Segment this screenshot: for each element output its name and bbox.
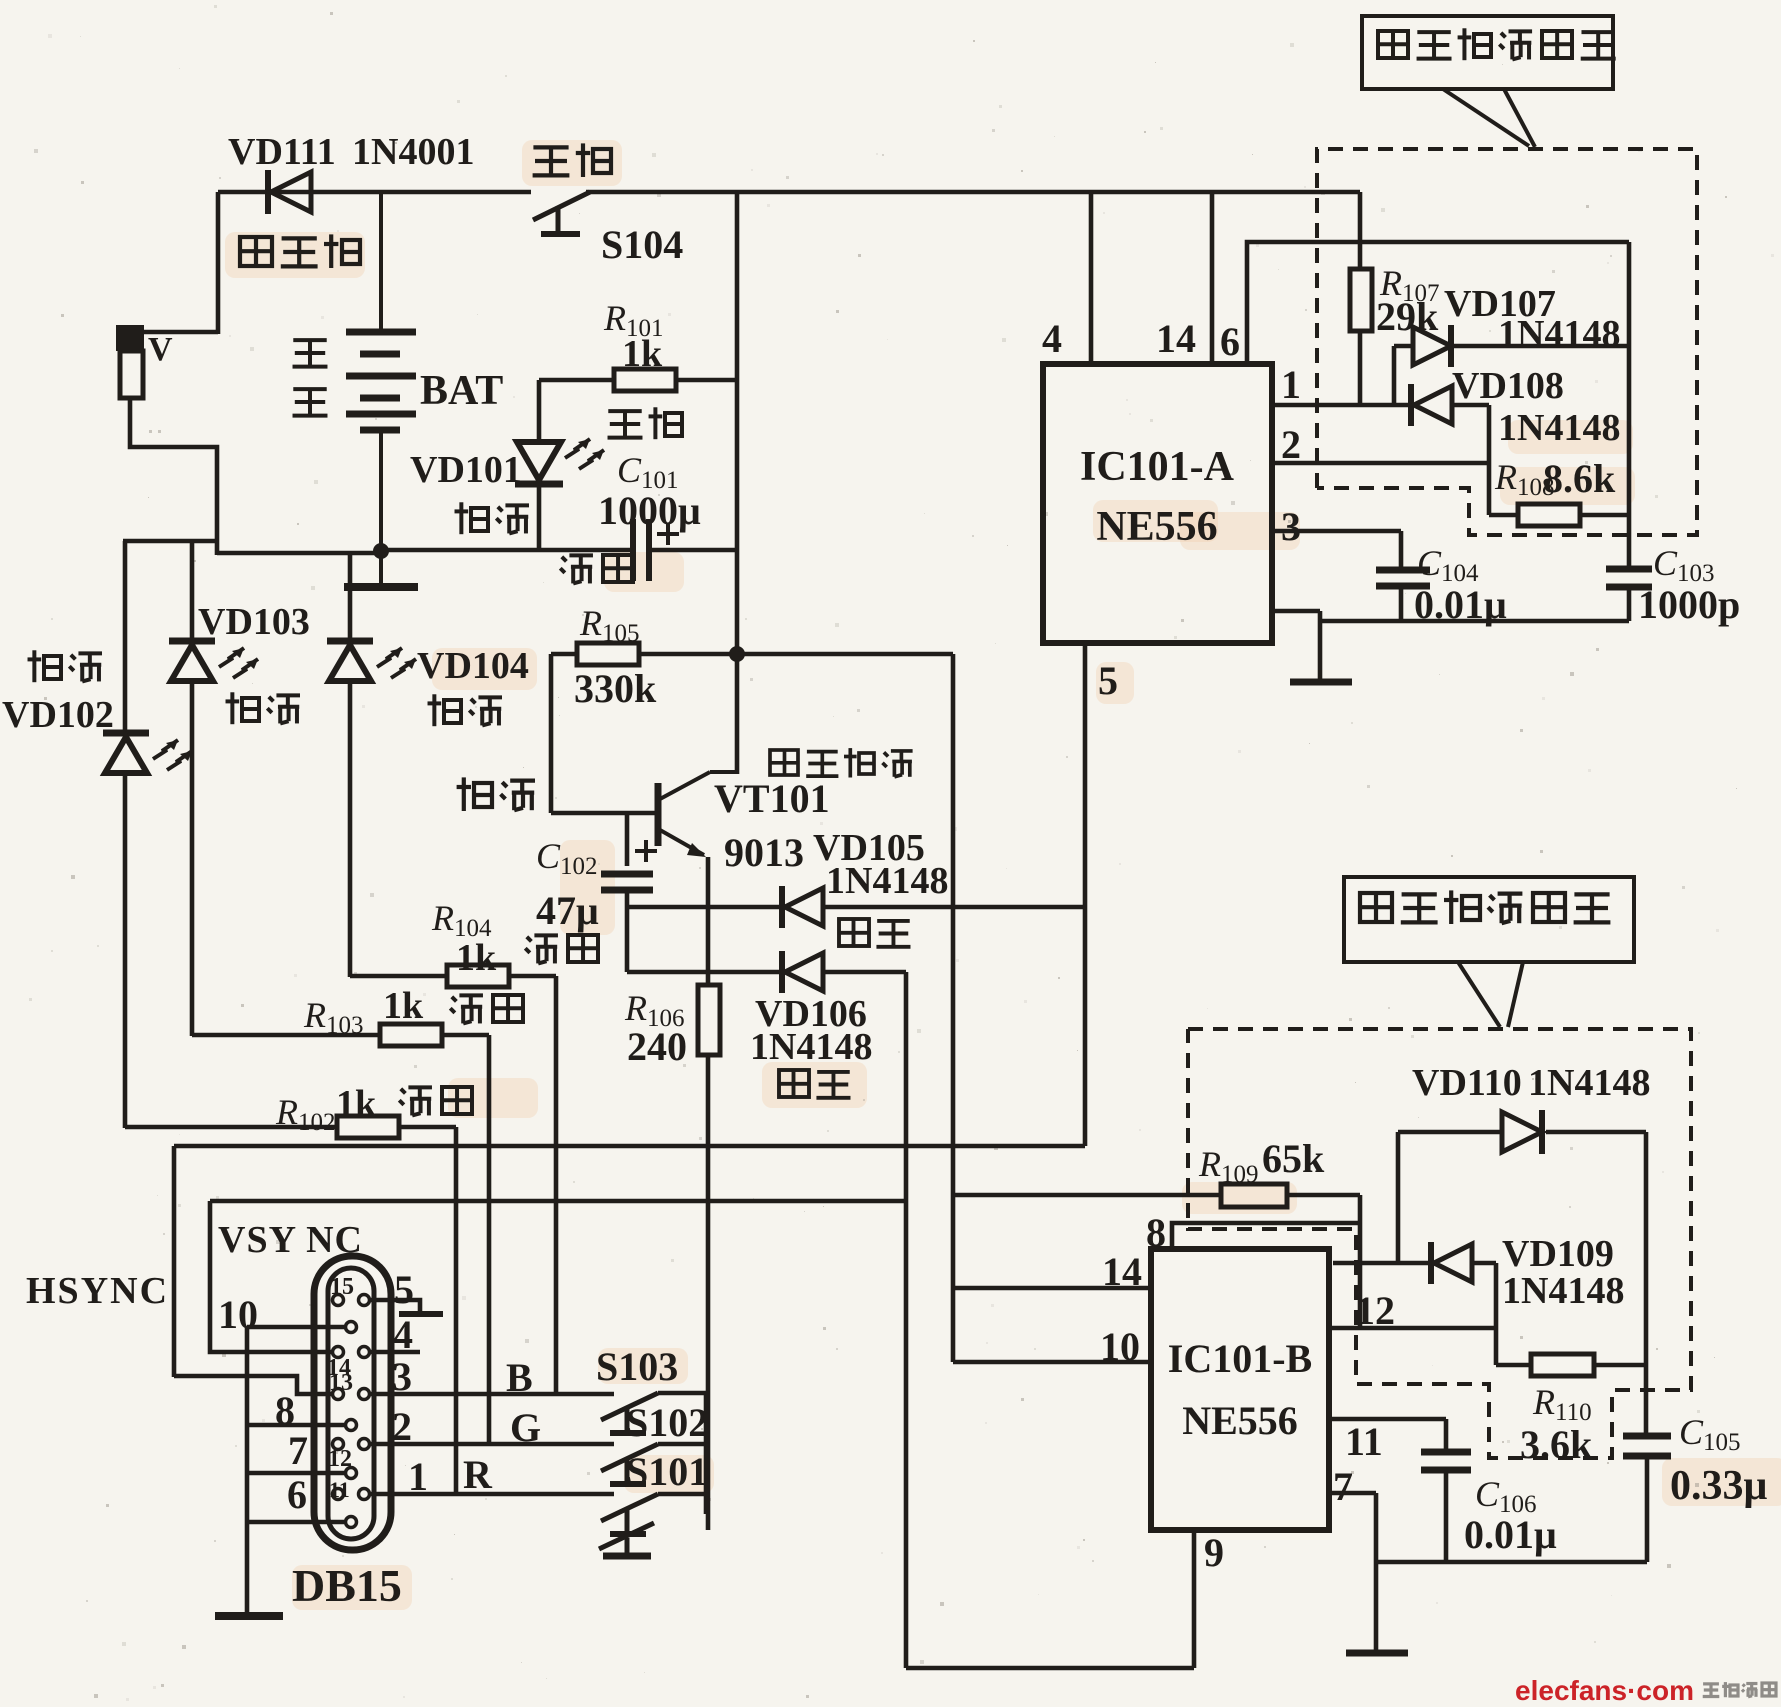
svg-text:11: 11 [329, 1477, 350, 1502]
wire VD105 row left [627, 905, 782, 910]
label DB15 [292, 1560, 402, 1611]
wire outer box left [172, 1146, 177, 1377]
label R104 1k [431, 898, 497, 979]
ground IC101-B [1346, 1650, 1408, 1657]
resistor R107 [1350, 192, 1372, 405]
svg-text:1k: 1k [383, 985, 424, 1027]
wire VD108 anode [1452, 405, 1489, 515]
wire pin11 row [1329, 1419, 1446, 1464]
wire pin6 row [247, 1472, 344, 1522]
svg-text:HSYNC: HSYNC [26, 1270, 169, 1312]
diode VD107 [1413, 325, 1451, 367]
wire V plug down [130, 398, 217, 555]
svg-text:V: V [148, 331, 173, 368]
switch S102 [601, 1444, 706, 1484]
svg-text:14: 14 [1102, 1249, 1142, 1294]
svg-text:11: 11 [1345, 1419, 1383, 1464]
label VD108 1N4148 [1452, 365, 1620, 449]
svg-text:6: 6 [287, 1472, 307, 1517]
wire pin4 [1042, 192, 1091, 364]
wire VD106 row right [823, 970, 906, 975]
label R101 1k [603, 298, 682, 439]
svg-text:1k: 1k [622, 333, 663, 375]
wire VD105 row right [823, 905, 1085, 910]
svg-text:15: 15 [330, 1274, 354, 1300]
svg-text:1N4001: 1N4001 [352, 131, 474, 173]
svg-text:1000p: 1000p [1638, 582, 1740, 627]
capacitor C105 [1623, 1436, 1671, 1562]
LED VD102 [103, 733, 192, 773]
diode VD108 [1411, 384, 1452, 426]
wire VD104 vertical top [348, 553, 353, 640]
label C105 0.33u [1670, 1412, 1768, 1509]
wire VD102 to R102 [123, 773, 128, 1128]
svg-text:1N4148: 1N4148 [1498, 313, 1620, 355]
svg-text:VT101: VT101 [714, 776, 830, 821]
label VD111 1N4001 [228, 131, 474, 173]
callout 脉冲振荡电路 bottom [1344, 877, 1634, 1027]
capacitor C102 [601, 813, 653, 972]
node R105 junction [729, 646, 745, 662]
pin 10 circle [346, 1322, 357, 1333]
switch common lever [599, 1523, 654, 1553]
wire pin12 row [1332, 1288, 1496, 1333]
svg-text:8.6k: 8.6k [1543, 456, 1616, 501]
switch S103 [601, 1393, 706, 1433]
svg-text:29k: 29k [1376, 294, 1439, 339]
svg-text:DB15: DB15 [292, 1560, 402, 1611]
wire x953 vertical [951, 654, 956, 1362]
svg-text:VD108: VD108 [1452, 365, 1564, 407]
label C106 0.01u [1464, 1474, 1557, 1557]
wire R102 down x456 [454, 1127, 459, 1496]
label VD106 1N4148 隔离 [750, 993, 872, 1098]
capacitor C106 [1421, 1452, 1471, 1562]
switch S104 [533, 192, 683, 267]
resistor R106 [698, 985, 720, 1055]
svg-text:3: 3 [1281, 504, 1301, 549]
wire VD109 anode [1472, 1263, 1496, 1365]
pin 15 [330, 1274, 354, 1306]
pin 5 [359, 1295, 370, 1306]
wire pin6 [1220, 242, 1629, 364]
wire left branch [123, 539, 219, 544]
transistor VT101 [658, 772, 737, 857]
pin 8 circle [346, 1420, 357, 1431]
wire switch common vertical [704, 1393, 709, 1514]
node battery-ground junction [373, 543, 389, 559]
svg-text:65k: 65k [1262, 1136, 1325, 1181]
wire G row [370, 1400, 708, 1450]
wire R104 down x556 [554, 976, 559, 1394]
capacitor C101 [633, 519, 737, 581]
pin 12 [328, 1439, 352, 1473]
svg-text:VD103: VD103 [198, 601, 310, 643]
pin 1 [359, 1489, 370, 1500]
diode VD106 [782, 951, 823, 993]
svg-text:10: 10 [218, 1292, 258, 1337]
battery BAT [346, 192, 416, 553]
svg-text:7: 7 [1333, 1464, 1353, 1509]
wire VD110 right [1546, 1130, 1646, 1135]
wire VD106 row left [627, 970, 782, 975]
label R102 1k 限流 [275, 1083, 472, 1136]
wire pin8 row [247, 1388, 345, 1433]
resistor R102 [125, 1116, 456, 1138]
svg-text:1N4148: 1N4148 [1502, 1270, 1624, 1312]
svg-text:5: 5 [394, 1267, 414, 1312]
label R106 240 [624, 988, 687, 1069]
label C103 1000p [1638, 543, 1740, 627]
resistor R108 [1489, 504, 1629, 526]
wire pin8 stub [1146, 1210, 1360, 1255]
callout 脉冲振荡电路 top [1362, 16, 1616, 147]
svg-text:IC101-A: IC101-A [1080, 444, 1235, 490]
capacitor C103 [1606, 569, 1652, 621]
svg-text:47μ: 47μ [536, 888, 599, 933]
svg-text:1000μ: 1000μ [598, 488, 701, 533]
svg-text:8: 8 [275, 1388, 295, 1433]
wire emitter to R106 [706, 857, 711, 986]
wire VD104 to R104 [348, 682, 353, 977]
wire pin10 row [218, 1292, 345, 1337]
wire gnd rail B [1376, 1560, 1647, 1565]
label 混频放大 [770, 748, 913, 777]
svg-text:G: G [510, 1405, 541, 1450]
wire pin10 B row [953, 1324, 1151, 1369]
svg-text:S102: S102 [626, 1400, 708, 1445]
boundary pulse box 2 [1188, 1029, 1691, 1458]
svg-text:VD109: VD109 [1502, 1233, 1614, 1275]
svg-text:elecfans·com: elecfans·com [1515, 1675, 1694, 1706]
svg-text:NE556: NE556 [1096, 504, 1217, 550]
svg-text:1N4148: 1N4148 [1498, 407, 1620, 449]
label 耦合 [457, 777, 535, 811]
watermark elecfans [1515, 1675, 1776, 1706]
diode VD111 [268, 170, 311, 214]
wire x1646 vertical [1644, 1132, 1649, 1436]
svg-text:2: 2 [1281, 422, 1301, 467]
wire R105 node to x953 [737, 652, 953, 657]
label R109 65k [1198, 1136, 1325, 1188]
wire x906 vertical [904, 972, 909, 1668]
ground IC101-A [1290, 679, 1352, 686]
pin 14 [327, 1347, 351, 1382]
label VD103 指示 [198, 601, 310, 724]
wire pin1 row [1272, 362, 1411, 407]
ground battery [344, 551, 418, 587]
svg-text:240: 240 [627, 1024, 687, 1069]
wire top rail left segment [218, 190, 531, 195]
connector DB15 shell [314, 1256, 391, 1550]
wire V to rail [143, 192, 218, 334]
wire pin5 stub [370, 1267, 443, 1314]
svg-text:B: B [506, 1355, 533, 1400]
svg-text:NE556: NE556 [1182, 1398, 1298, 1443]
svg-text:8: 8 [1146, 1210, 1166, 1255]
wire VD109 row [1333, 1261, 1431, 1266]
wire VD103 to R103 [190, 682, 195, 1036]
svg-text:4: 4 [393, 1312, 413, 1357]
resistor R105 [551, 643, 737, 665]
wire HSYNC jog [174, 1376, 333, 1394]
svg-text:14: 14 [1156, 316, 1196, 361]
svg-text:1k: 1k [336, 1083, 377, 1125]
svg-text:3: 3 [392, 1354, 412, 1399]
svg-text:12: 12 [1355, 1288, 1395, 1333]
svg-text:1k: 1k [456, 937, 497, 979]
svg-text:1N4148: 1N4148 [826, 860, 948, 902]
op-amp U IC101-B [1151, 1249, 1329, 1530]
svg-text:1: 1 [408, 1454, 428, 1499]
svg-text:VD104: VD104 [417, 645, 529, 687]
svg-text:VD110: VD110 [1412, 1062, 1522, 1104]
wire VSYNC left [210, 1201, 333, 1352]
LED VD104 [327, 641, 416, 681]
svg-text:S104: S104 [601, 222, 683, 267]
wire VD103 vertical top [190, 541, 195, 640]
svg-text:0.01μ: 0.01μ [1464, 1512, 1557, 1557]
wire pin3 row [1272, 504, 1401, 549]
svg-text:3.6k: 3.6k [1520, 1422, 1593, 1467]
resistor R101 [539, 369, 737, 391]
label C104 0.01u [1414, 543, 1507, 627]
svg-text:VD102: VD102 [2, 694, 114, 736]
svg-text:S101: S101 [626, 1449, 708, 1494]
svg-text:0.33μ: 0.33μ [1670, 1463, 1768, 1509]
label BAT [420, 368, 503, 414]
resistor R109 [953, 1184, 1360, 1207]
wire pin7 down [1374, 1493, 1379, 1650]
ground DB15 [215, 1612, 283, 1620]
wire B row [370, 1344, 678, 1400]
pin 7 circle [346, 1468, 357, 1479]
label HSYNC [26, 1270, 169, 1312]
wire pin14 [1156, 192, 1212, 364]
pin 13 [329, 1370, 353, 1400]
svg-text:IC101-B: IC101-B [1168, 1336, 1312, 1381]
svg-text:9: 9 [1204, 1530, 1224, 1575]
svg-text:VD101: VD101 [410, 449, 522, 491]
wire pin4 stub [370, 1312, 420, 1357]
label pin5 A [1098, 658, 1118, 703]
svg-text:9013: 9013 [724, 830, 804, 875]
wire VD110 left [1398, 1132, 1502, 1263]
diode VD105 [782, 886, 823, 928]
wire top rail right segment [586, 190, 1360, 195]
pin 3 [359, 1389, 370, 1400]
label R103 1k 限流 [303, 985, 523, 1039]
wire rail y1146 [174, 1144, 1085, 1149]
ground switches [603, 1553, 651, 1560]
label 开关 [533, 143, 611, 177]
wire pin5 vertical [1083, 643, 1088, 1146]
capacitor C104 [1376, 570, 1430, 621]
resistor R104 [350, 965, 556, 987]
svg-text:5: 5 [1098, 658, 1118, 703]
wire gnd-pins vertical [245, 1327, 250, 1612]
resistor R110 [1496, 1354, 1646, 1376]
label R108 8.6k [1494, 456, 1616, 501]
svg-text:1: 1 [1281, 362, 1301, 407]
pin 4 [359, 1347, 370, 1358]
label pin 9 [1204, 1530, 1224, 1575]
svg-text:BAT: BAT [420, 368, 503, 414]
switch S101 [601, 1494, 706, 1534]
label VD109 1N4148 [1502, 1233, 1624, 1312]
wire right column x1629 [1627, 242, 1632, 568]
label VD101 指示 [410, 449, 529, 534]
terminal V plug [116, 325, 173, 398]
svg-text:1N4148: 1N4148 [750, 1026, 872, 1068]
diode VD110 [1502, 1110, 1542, 1154]
wire bottom ground run [906, 1666, 1194, 1671]
LED VD103 [169, 641, 258, 681]
svg-text:7: 7 [288, 1428, 308, 1473]
pin 11 [329, 1477, 350, 1502]
label R105 330k [574, 603, 657, 711]
svg-text:13: 13 [329, 1370, 353, 1396]
pin 2 [359, 1439, 370, 1450]
wire VD102 vertical top [123, 541, 128, 731]
svg-text:S103: S103 [596, 1344, 678, 1389]
svg-text:6: 6 [1220, 319, 1240, 364]
wire node8 vertical [1358, 1195, 1363, 1328]
label VD104 指示 [417, 645, 529, 726]
wire gnd rail A [1272, 611, 1629, 679]
wire pin2 row [1272, 422, 1489, 467]
wire rail x737 [735, 192, 740, 774]
label C101 1000u [598, 450, 701, 545]
wire pin9 stem [1192, 1530, 1197, 1668]
wire pin3 to C104 [1399, 531, 1404, 568]
svg-text:1N4148: 1N4148 [1528, 1062, 1650, 1104]
svg-text:4: 4 [1042, 316, 1062, 361]
label 防极性 [240, 234, 360, 268]
label 电池 [293, 340, 328, 416]
svg-text:R: R [463, 1452, 493, 1497]
label VT101 9013 [714, 776, 830, 875]
wire pin11 to C106 [1444, 1419, 1449, 1452]
label VD102 指示 [2, 650, 114, 736]
wire VD107 to right [1453, 344, 1629, 349]
label 滤波 [560, 555, 633, 584]
svg-text:2: 2 [392, 1404, 412, 1449]
wire bottom rail y553 [217, 550, 630, 553]
wire VSYNC box top [210, 1199, 906, 1204]
diode VD109 [1431, 1242, 1472, 1284]
wire base loop [551, 654, 655, 813]
wire pin14 B row [953, 1249, 1151, 1294]
label C102 47u [525, 836, 657, 963]
svg-text:10: 10 [1100, 1324, 1140, 1369]
wire R row [370, 1449, 708, 1499]
LED VD101 [515, 380, 604, 551]
boundary pulse box 1 [1317, 149, 1697, 535]
label R107 29k [1376, 263, 1440, 339]
label VD105 1N4148 隔离 [813, 827, 948, 947]
wire pin7 row [247, 1428, 345, 1473]
wire R103 down x489 [487, 1035, 492, 1445]
op-amp U IC101-A [1043, 364, 1272, 643]
resistor R103 [192, 1024, 489, 1046]
label VD107 1N4148 [1444, 283, 1620, 355]
pin 6 circle [346, 1517, 357, 1528]
label R110 3.6k [1520, 1382, 1593, 1467]
wire VD107 branch [1394, 346, 1413, 405]
label VSYNC [218, 1219, 363, 1261]
svg-text:VD111: VD111 [228, 131, 336, 173]
wire R106 down [706, 1055, 711, 1530]
label VD110 1N4148 [1412, 1062, 1650, 1104]
wire pin7 row [1329, 1464, 1376, 1509]
svg-text:330k: 330k [574, 666, 657, 711]
